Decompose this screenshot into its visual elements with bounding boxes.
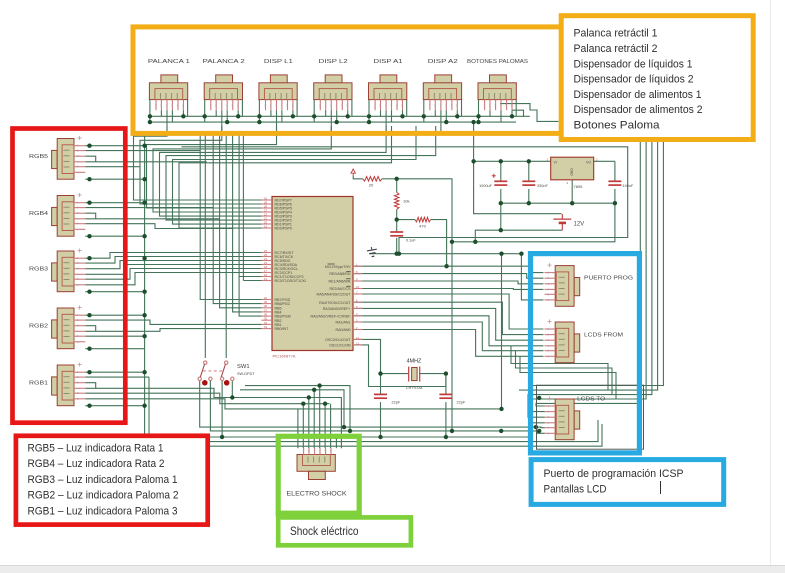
wire crystal left	[381, 373, 409, 375]
svg-text:RGB2: RGB2	[29, 324, 48, 330]
svg-text:Palanca retráctil 1: Palanca retráctil 1	[574, 28, 658, 40]
svg-text:Dispensador de alimentos 2: Dispensador de alimentos 2	[574, 104, 703, 116]
wire RGB5 pin6	[85, 178, 144, 180]
wire RGB4 pin2	[85, 207, 213, 209]
svg-text:RGB3: RGB3	[29, 267, 48, 273]
wire RGB4 pin1	[85, 202, 144, 204]
wire RA/RE staircase 1	[354, 294, 544, 329]
connector LCDS FROM	[545, 320, 580, 363]
junction	[471, 159, 475, 163]
green frame around ELECTRO SHOCK	[278, 436, 359, 513]
junction	[537, 429, 541, 433]
junction	[307, 395, 311, 399]
wire c22b bottom	[445, 402, 447, 437]
junction	[312, 388, 316, 392]
connector RGB1	[52, 363, 86, 406]
junction	[455, 114, 459, 118]
svg-text:DISP L1: DISP L1	[264, 59, 293, 65]
orange frame around top connectors	[133, 27, 580, 133]
connector J7 BOTONES PALOMAS	[478, 75, 516, 110]
wire RGB1 pin3 jog	[85, 383, 95, 389]
junction	[142, 334, 146, 338]
svg-text:ELECTRO SHOCK: ELECTRO SHOCK	[287, 491, 348, 498]
junction	[499, 228, 503, 232]
svg-text:Botones Paloma: Botones Paloma	[574, 120, 661, 132]
wire RA/RE staircase 2	[354, 302, 544, 334]
red text box legend	[16, 436, 208, 525]
connector RGB3	[52, 249, 86, 292]
junction	[142, 234, 146, 238]
red frame around RGB connectors	[13, 129, 126, 423]
svg-text:7805: 7805	[574, 184, 584, 189]
wire node to r470	[397, 219, 415, 221]
junction	[87, 144, 91, 148]
wire connector J4 left drop	[313, 100, 315, 123]
connector J2 PALANCA 2	[204, 75, 242, 110]
wire electroshock pin3 up	[313, 390, 315, 448]
wire ES hook row 1	[245, 386, 350, 431]
wire connector J6 left drop	[423, 100, 425, 123]
svg-text:Dispensador de alimentos 1: Dispensador de alimentos 1	[574, 89, 702, 101]
junction	[348, 429, 352, 433]
wire connector J1 left drop	[149, 100, 151, 123]
wire channel v2 to RB5	[220, 131, 262, 308]
wire fan net 8	[179, 126, 392, 228]
junction	[301, 402, 305, 406]
junction	[397, 252, 401, 256]
wire RGB3 pin4 to RC	[85, 265, 261, 275]
svg-text:OSC1/CLKIN: OSC1/CLKIN	[329, 344, 351, 348]
capacitor C4 0.1uF	[390, 232, 416, 243]
junction	[450, 429, 454, 433]
svg-text:RGB5: RGB5	[29, 154, 48, 160]
svg-text:330nF: 330nF	[537, 184, 548, 188]
wire RGB5 pin3 jog	[85, 156, 95, 162]
wire RGB3 pin3 to RC	[85, 261, 261, 269]
svg-text:Dispensador de líquidos 2: Dispensador de líquidos 2	[574, 74, 694, 86]
wire RGB1 pin4 to y397	[85, 388, 341, 448]
svg-text:BOTONES PALOMAS: BOTONES PALOMAS	[467, 59, 528, 65]
wire connector J1 pin4 drop	[171, 110, 173, 122]
junction	[225, 120, 229, 124]
junction	[87, 370, 91, 374]
capacitor C3 100nF	[608, 181, 634, 188]
svg-text:MCLR/Vpp/THV: MCLR/Vpp/THV	[325, 265, 351, 269]
wire channel v0 to RB7	[200, 131, 261, 300]
svg-text:RE1/AN6/WR: RE1/AN6/WR	[329, 280, 351, 284]
wire c100 bottom stub	[614, 189, 616, 203]
wire connector J4 pin4 drop	[336, 110, 338, 122]
junction	[142, 177, 146, 181]
svg-text:RGB1 – Luz indicadora Paloma 3: RGB1 – Luz indicadora Paloma 3	[28, 505, 178, 517]
wire RGB4 pin5	[85, 224, 232, 229]
junction	[499, 201, 503, 205]
svg-text:LCDS TO: LCDS TO	[577, 397, 605, 403]
svg-text:RA2/AN2/VREF-/CVREF: RA2/AN2/VREF-/CVREF	[311, 314, 352, 318]
junction	[395, 252, 399, 256]
svg-text:LCDS FROM: LCDS FROM	[584, 333, 624, 339]
wire RGB1 corner	[85, 405, 144, 407]
wire gnd rail	[369, 253, 521, 255]
connector RGB5	[52, 136, 86, 179]
svg-text:0.1uF: 0.1uF	[406, 239, 416, 243]
junction	[444, 371, 448, 375]
slide edge line right	[770, 0, 772, 565]
wire power bottom rail	[501, 202, 615, 204]
junction	[367, 114, 371, 118]
wire connector J2 left drop	[204, 100, 206, 123]
svg-text:RGB4: RGB4	[29, 211, 48, 217]
wire c330 bottom stub	[528, 189, 530, 203]
junction	[148, 120, 152, 124]
junction	[257, 114, 261, 118]
wire RE1 to PP3	[354, 281, 544, 284]
svg-text:RGB2 – Luz indicadora Paloma 2: RGB2 – Luz indicadora Paloma 2	[28, 490, 179, 502]
wire connector J2 pin6 drop	[237, 110, 239, 116]
wire connector J2 pin4 drop	[226, 110, 228, 122]
wire c01 top stub	[396, 220, 398, 232]
svg-text:12V: 12V	[574, 222, 585, 228]
junction	[499, 252, 503, 256]
junction	[87, 177, 91, 181]
wire RA/RE staircase 6	[354, 330, 544, 357]
wire right feed v1	[536, 142, 640, 406]
wire electroshock pin2 up	[308, 398, 310, 449]
wire connector J7 pin6 drop	[511, 110, 513, 116]
wire gnd rail drop	[521, 254, 543, 300]
wire SW1 t3 down	[221, 381, 223, 438]
wire connector J1 pin6 drop	[182, 110, 184, 116]
junction	[230, 395, 234, 399]
junction	[181, 114, 185, 118]
svg-text:22pF: 22pF	[392, 401, 401, 405]
wire fan net 2	[140, 126, 262, 204]
svg-text:RB0/INT: RB0/INT	[275, 327, 290, 331]
connector J5 DISP A1	[369, 75, 407, 110]
op-amp U1 PIC16F877A microcontroller	[262, 196, 363, 350]
svg-text:PUERTO PROG: PUERTO PROG	[584, 276, 633, 282]
wire collector x149	[149, 377, 602, 446]
blue text box legend	[531, 460, 724, 505]
svg-text:1000uF: 1000uF	[479, 184, 493, 188]
junction	[236, 114, 240, 118]
wire electroshock corner left up	[297, 409, 299, 448]
svg-text:RE0/AN5/RD: RE0/AN5/RD	[329, 272, 351, 276]
blue frame around right connectors	[531, 254, 640, 453]
wire connector J5 right drop	[406, 100, 408, 117]
wire y241 ground run	[452, 203, 615, 242]
wire wrap under LF 1	[511, 346, 608, 390]
wire r470 to mclr	[431, 220, 447, 267]
wire connector J2 pin2 drop	[215, 110, 217, 116]
wire top bus 1	[150, 115, 530, 117]
junction	[471, 120, 475, 124]
bottom gray bar	[0, 566, 785, 573]
wire RGB5 pin2	[85, 150, 200, 152]
svg-text:RGB5 – Luz indicadora Rata 1: RGB5 – Luz indicadora Rata 1	[28, 443, 164, 455]
wire connector J3 pin2 drop	[270, 110, 272, 116]
ground symbol	[366, 246, 378, 257]
wire RGB4 pin3 jog	[85, 213, 95, 219]
connector PUERTO PROG	[545, 263, 580, 306]
junction	[499, 159, 503, 163]
wire connector J4 feed drop	[330, 110, 332, 131]
junction	[444, 435, 448, 439]
capacitor C1 1000uF	[479, 174, 507, 188]
resistor R3 470	[415, 217, 431, 222]
junction	[613, 201, 617, 205]
wire c01 bottom stub	[396, 238, 398, 254]
wire right feed v5	[529, 142, 663, 386]
junction	[519, 252, 523, 256]
junction	[400, 114, 404, 118]
crystal X1 4MHZ	[409, 367, 420, 382]
svg-text:Shock eléctrico: Shock eléctrico	[290, 524, 359, 538]
wire RGB2 pin1	[85, 314, 144, 316]
junction	[378, 435, 382, 439]
wire fan net 3	[147, 126, 277, 208]
wire botones right 2	[512, 110, 524, 116]
wire RA/RE staircase 5	[354, 322, 544, 351]
svg-text:100nF: 100nF	[623, 184, 634, 188]
connector J1 PALANCA 1	[149, 75, 187, 110]
wire connector J6 feed drop	[440, 110, 442, 131]
junction	[510, 114, 514, 118]
svg-text:470: 470	[419, 224, 426, 229]
wire fan net 7	[173, 126, 417, 224]
wire 7805 gnd stub	[571, 180, 573, 203]
wire connector J3 left drop	[258, 100, 260, 123]
wire crystal right	[420, 373, 446, 375]
junction	[570, 201, 574, 205]
junction	[203, 114, 207, 118]
wire wrap under LF 3	[520, 356, 616, 399]
svg-text:RA0/AN0: RA0/AN0	[336, 328, 351, 332]
wire RGB3 pin6b	[85, 291, 144, 293]
wire RE0 to PP2	[354, 274, 544, 279]
wire RGB3 pin5 to RC	[85, 269, 261, 280]
wire connector J5 left drop	[368, 100, 370, 123]
junction	[334, 435, 338, 439]
wire channel v5 to RC7	[242, 131, 244, 281]
connector ELECTRO SHOCK	[297, 448, 335, 480]
junction	[87, 256, 91, 260]
wire connector J7 pin4 drop	[500, 110, 502, 122]
wire connector J1 right drop	[187, 100, 189, 117]
junction	[87, 347, 91, 351]
connector RGB4	[52, 193, 86, 236]
wire electroshock pin5 up	[324, 404, 326, 449]
wire c22b top	[445, 374, 447, 395]
junction	[87, 404, 91, 408]
connector J4 DISP L2	[314, 75, 352, 110]
junction	[142, 201, 146, 205]
wire RGB2 pin5	[85, 335, 144, 337]
wire RC7 from channel	[243, 280, 261, 282]
svg-text:PIC16F877A: PIC16F877A	[273, 354, 296, 359]
junction	[142, 144, 146, 148]
wire connector J5 feed drop	[385, 110, 387, 131]
junction	[499, 429, 503, 433]
wire collector x144.6	[145, 131, 598, 442]
wire channel v4 to RB3	[239, 131, 261, 316]
svg-text:RC0/T1OSO/T1CKI: RC0/T1OSO/T1CKI	[275, 279, 307, 283]
capacitor C2 330nF	[522, 181, 548, 188]
wire c22a top	[380, 374, 382, 395]
svg-text:SW1: SW1	[237, 364, 250, 370]
wire connector J5 pin6 drop	[402, 110, 404, 116]
wire connector J4 pin6 drop	[347, 110, 349, 116]
wire battery bottom	[475, 230, 562, 242]
wire r10k top stub	[396, 179, 398, 193]
wire fan net 4	[153, 126, 331, 212]
wire right feed v3	[528, 142, 652, 417]
connector RGB2	[52, 306, 86, 349]
wire wrap under LF 2	[516, 351, 613, 395]
wire RGB1 pin2	[85, 376, 149, 378]
wire r10k bottom stub	[396, 209, 398, 219]
wire RC6 from channel	[239, 276, 261, 278]
wire connector J2 feed drop	[221, 110, 223, 131]
junction	[527, 201, 531, 205]
wire channel v1 to RB6	[213, 131, 261, 304]
wire c330 top stub	[528, 161, 530, 181]
junction	[476, 114, 480, 118]
wire c22a bottom	[380, 402, 382, 437]
junction	[312, 114, 316, 118]
junction	[323, 402, 327, 406]
wire electroshock pin1 up	[302, 404, 304, 449]
wire connector J6 pin2 drop	[434, 110, 436, 116]
svg-text:22pF: 22pF	[457, 401, 466, 405]
capacitor C5 22pF	[374, 394, 401, 404]
wire node to x452	[397, 179, 452, 242]
wire botones right 1	[500, 104, 559, 122]
wire connector J6 pin4 drop	[445, 110, 447, 122]
wire connector J7 pin2 drop	[489, 110, 491, 116]
junction	[450, 240, 454, 244]
svg-text:PALANCA 1: PALANCA 1	[148, 59, 190, 65]
wire RGB2 pin3 jog	[85, 326, 95, 332]
svg-text:10k: 10k	[403, 199, 409, 204]
wire power top rail	[474, 160, 615, 162]
resistor R1 20	[363, 177, 382, 182]
svg-text:VI: VI	[554, 161, 557, 165]
svg-text:RGB4 – Luz indicadora Rata 2: RGB4 – Luz indicadora Rata 2	[28, 458, 165, 470]
svg-text:RD0/PSP0: RD0/PSP0	[275, 227, 292, 231]
wire bottom row y437	[149, 423, 545, 437]
svg-text:DISP A2: DISP A2	[428, 59, 458, 65]
wire x501 vertical	[501, 254, 503, 409]
junction	[395, 177, 399, 181]
wire c100 top stub	[614, 161, 616, 181]
svg-text:SW-DPDT: SW-DPDT	[237, 372, 255, 376]
svg-text:Puerto de programación ICSP: Puerto de programación ICSP	[544, 468, 684, 480]
wire connector J2 right drop	[241, 100, 243, 117]
junction	[378, 371, 382, 375]
wire RE2 to PP4	[354, 288, 544, 291]
junction	[537, 396, 541, 400]
junction	[395, 217, 399, 221]
svg-text:PALANCA 2: PALANCA 2	[203, 59, 245, 65]
connector LCDS TO	[545, 397, 580, 440]
wire RGB3 pin6 to RC	[85, 273, 261, 285]
capacitor C6 22pF	[439, 394, 465, 404]
wire connector J1 feed drop	[166, 110, 168, 131]
svg-text:CRYSTAL: CRYSTAL	[406, 386, 423, 390]
wire long top-right loop	[182, 147, 628, 254]
junction	[444, 120, 448, 124]
wire connector J3 right drop	[296, 100, 298, 117]
wire ES hook row 2	[240, 390, 344, 427]
svg-text:RA3/AN3/VREF+: RA3/AN3/VREF+	[323, 307, 351, 311]
connector J6 DISP A2	[423, 75, 461, 110]
battery BAT1 12V	[553, 214, 571, 230]
svg-text:OSC2/CLKOUT: OSC2/CLKOUT	[325, 338, 351, 342]
wire SW1 common1 up	[204, 131, 206, 358]
wire r20 to node	[382, 178, 397, 180]
wire c1000 top stub	[500, 161, 502, 181]
svg-text:RA5/AN4/SS/C2OUT: RA5/AN4/SS/C2OUT	[317, 293, 352, 297]
wire SW1 t1 down	[200, 381, 545, 428]
junction	[142, 404, 146, 408]
wire RGB5 pin4	[85, 161, 206, 163]
power +5V arrow	[351, 169, 355, 175]
junction	[142, 370, 146, 374]
wire RGB4 pin6	[85, 235, 144, 237]
wire RGB5 pin1	[85, 145, 144, 147]
junction	[342, 425, 346, 429]
svg-text:RA1/AN1: RA1/AN1	[336, 321, 351, 325]
wire right feed v4	[519, 142, 658, 390]
svg-text:VO: VO	[586, 161, 591, 165]
junction	[444, 264, 448, 268]
wire bus to power rail drop	[473, 122, 475, 161]
wire x452 down to bundle	[451, 242, 453, 431]
junction	[527, 159, 531, 163]
junction	[87, 201, 91, 205]
wire connector J7 left drop	[478, 100, 480, 123]
wire RGB1 pin6 to y408	[85, 399, 501, 409]
svg-text:Palanca retráctil 2: Palanca retráctil 2	[574, 43, 658, 55]
wire RGB4 pin4	[85, 218, 219, 220]
svg-text:DISP A1: DISP A1	[374, 59, 403, 65]
wire connector J1 pin2 drop	[160, 110, 162, 116]
wire connector J3 feed drop	[276, 110, 278, 131]
svg-text:Dispensador de líquidos 1: Dispensador de líquidos 1	[574, 58, 693, 70]
wire fan net 6	[166, 126, 436, 220]
wire top bus 2	[150, 121, 516, 123]
junction	[87, 290, 91, 294]
wire electroshock pin6 up	[330, 404, 332, 449]
wire OSC1	[354, 345, 446, 387]
junction	[335, 120, 339, 124]
wire RGB2 pin4	[85, 329, 261, 332]
svg-text:4MHZ: 4MHZ	[407, 359, 422, 365]
junction	[534, 425, 538, 429]
wire RGB3 pin2 to RC	[85, 257, 261, 264]
wire x500 to battery bottom	[500, 203, 502, 230]
junction	[473, 240, 477, 244]
wire RA/RE staircase 3	[354, 308, 544, 340]
wire OSC2	[354, 339, 381, 373]
wire connector J4 right drop	[351, 100, 353, 117]
wire channel v3 to RB4	[233, 131, 262, 312]
wire connector J6 pin6 drop	[456, 110, 458, 116]
wire MCLR to PP1	[354, 266, 544, 272]
junction	[87, 234, 91, 238]
svg-text:Pantallas LCD: Pantallas LCD	[544, 484, 607, 496]
